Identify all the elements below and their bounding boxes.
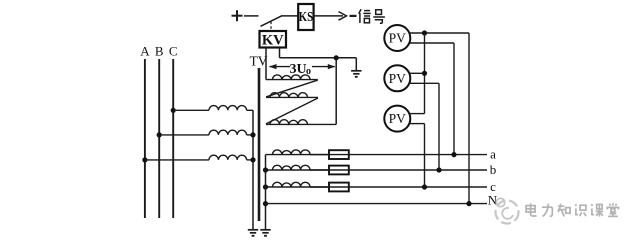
secondary winding a <box>266 150 330 155</box>
svg-text:TV: TV <box>250 53 268 68</box>
switch contact KV-1 (repeater of KV) <box>261 16 282 26</box>
svg-text:a: a <box>490 147 496 162</box>
relay KS <box>298 4 313 30</box>
secondary winding c <box>266 182 330 187</box>
junction dot PV2 common <box>422 71 427 76</box>
secondary star bus <box>265 155 267 230</box>
primary neutral ground <box>248 229 258 236</box>
PV3 bottom wire to c <box>409 124 424 187</box>
line c <box>310 186 487 188</box>
junction dot on a <box>451 152 456 157</box>
voltmeter PV3 <box>384 106 410 132</box>
line b <box>310 169 487 171</box>
wire KS to signal arrow <box>314 15 343 17</box>
junction dot secondary b <box>263 167 268 172</box>
PV2 bottom wire to b <box>409 83 439 170</box>
primary winding phase B <box>209 130 253 135</box>
junction dot on N <box>466 201 471 206</box>
svg-text:b: b <box>490 162 497 177</box>
svg-text:C: C <box>169 44 178 59</box>
fuse FU-c <box>329 183 349 192</box>
svg-text:A: A <box>140 44 150 59</box>
svg-text:PV: PV <box>389 111 407 126</box>
label TV <box>250 53 268 68</box>
fuse FU-a <box>329 150 349 159</box>
busbar A <box>144 59 146 218</box>
open-delta winding section 2 <box>266 93 318 98</box>
arrowhead to signal <box>339 12 357 21</box>
junction dot on b <box>436 167 441 172</box>
open-delta winding section 1 <box>266 75 318 80</box>
wire N drop <box>468 33 470 204</box>
busbar C <box>172 59 174 218</box>
wire + to contact <box>244 15 259 17</box>
svg-text:PV: PV <box>389 71 407 86</box>
delta series link 1 <box>266 80 318 97</box>
PV1 top wire to N drop <box>409 32 469 34</box>
label c <box>490 179 496 194</box>
transformer core <box>258 68 261 221</box>
svg-text:PV: PV <box>389 31 407 46</box>
PV3 top wire <box>409 113 424 115</box>
PV1 bottom wire to a <box>409 43 454 155</box>
label N <box>488 193 498 208</box>
tap from B <box>157 132 209 137</box>
relay KV <box>260 31 287 49</box>
fuse FU-b <box>329 166 349 175</box>
node + (positive supply) <box>232 10 243 21</box>
svg-text:KV: KV <box>262 33 284 49</box>
label b <box>490 162 497 177</box>
junction dot PV common top <box>422 30 427 35</box>
junction dot delta-right / earth bus <box>334 55 339 60</box>
primary winding phase A <box>209 155 253 160</box>
voltmeter PV1 <box>384 25 410 51</box>
label 信号 (signal) <box>359 9 385 23</box>
watermark logo <box>496 198 519 223</box>
line N <box>263 201 487 206</box>
secondary neutral ground <box>260 229 270 236</box>
junction dot secondary c <box>263 184 268 189</box>
tap from A <box>142 157 209 162</box>
open-delta winding section 3 <box>266 120 336 125</box>
phase labels A B C <box>140 44 177 59</box>
delta right terminal wire <box>335 58 337 125</box>
svg-text:KS: KS <box>299 10 314 25</box>
watermark text 电力知识课堂 <box>526 203 618 216</box>
wire contact to KS <box>281 15 298 17</box>
svg-text:B: B <box>155 44 164 59</box>
dimension 3U0 <box>269 62 335 77</box>
line a <box>310 154 487 156</box>
junction dot primary B <box>250 132 255 137</box>
ground of 3U0 circuit <box>351 58 361 77</box>
voltmeter PV2 <box>384 65 410 91</box>
dashed link contact to KV <box>270 22 272 31</box>
secondary winding b <box>266 165 330 170</box>
delta series link 2 <box>266 98 318 124</box>
busbar B <box>158 59 160 218</box>
wire KV left to open-delta <box>265 48 267 80</box>
PV2 top wire <box>409 72 424 74</box>
label a <box>490 147 496 162</box>
wire KV right to earth bus <box>280 48 357 58</box>
primary winding phase C <box>209 106 253 111</box>
junction dot primary A <box>250 157 255 162</box>
junction dot on c <box>422 184 427 189</box>
tap from C <box>171 108 209 113</box>
primary star point bus <box>252 110 254 230</box>
PV common bus <box>424 33 426 114</box>
